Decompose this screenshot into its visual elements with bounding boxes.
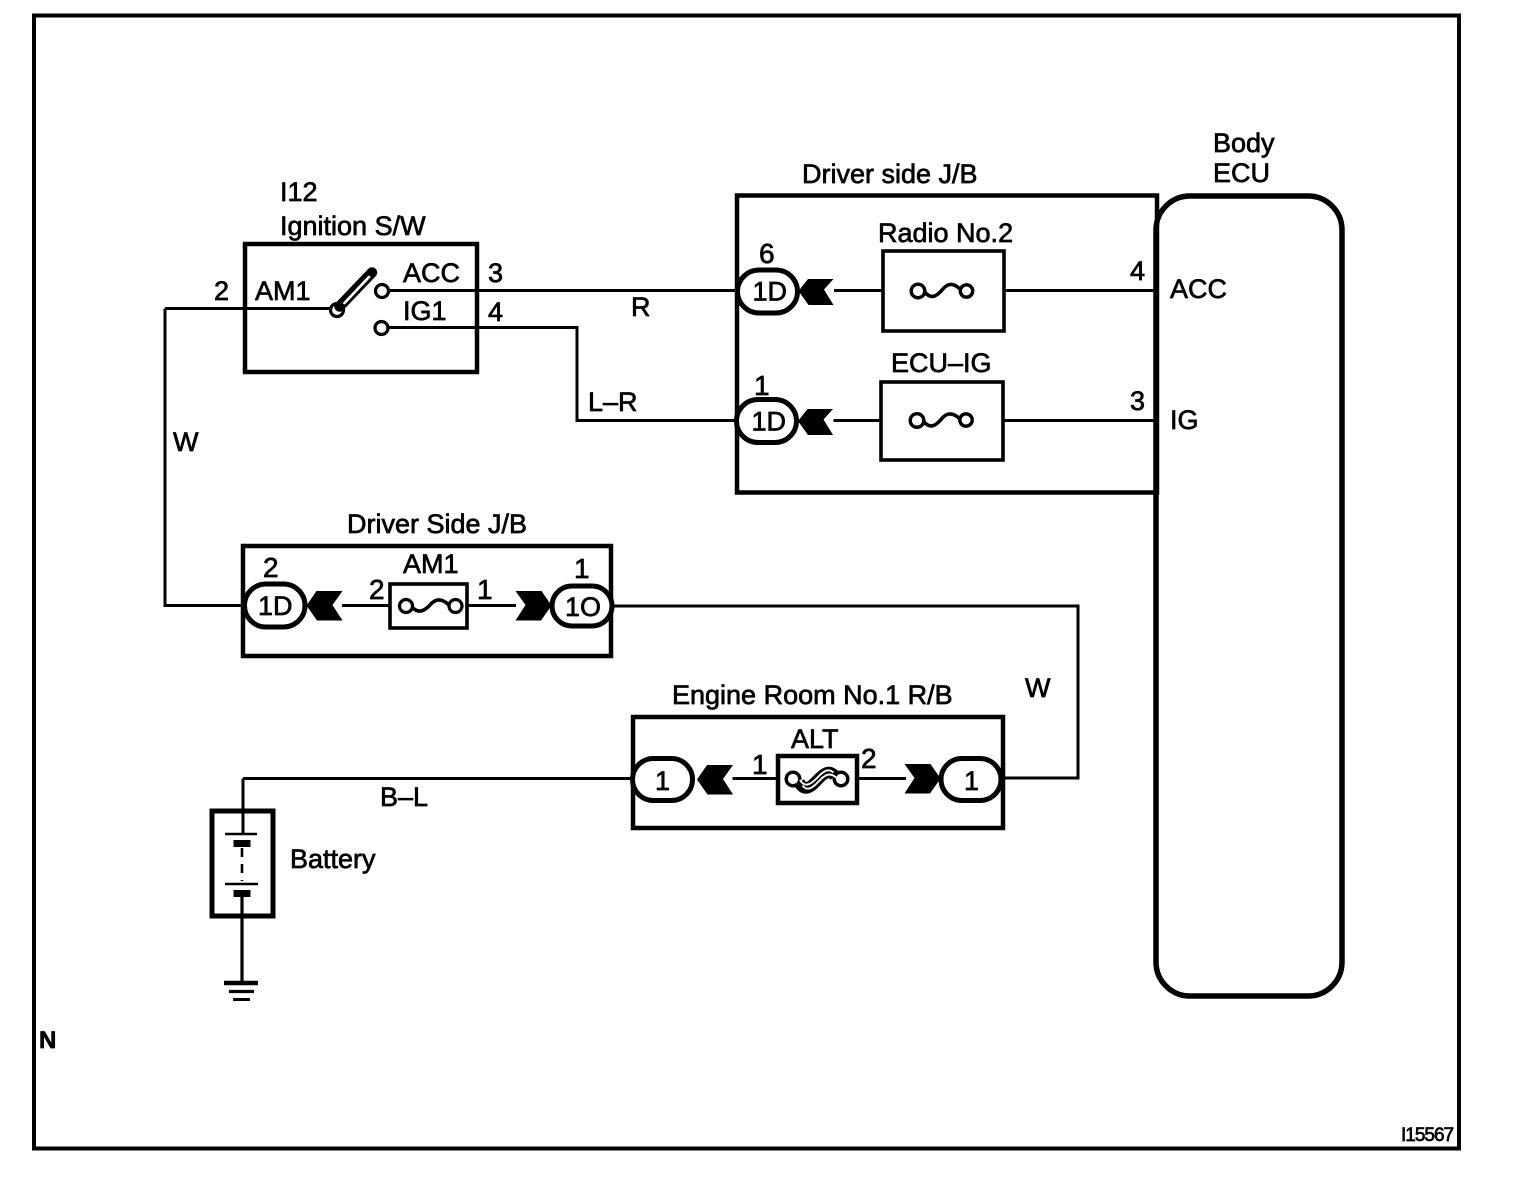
svg-text:4: 4 (488, 297, 503, 327)
svg-text:R: R (631, 292, 651, 322)
fuse ALT symbol (786, 772, 800, 786)
wire battery to ground (240, 896, 243, 983)
svg-text:1D: 1D (753, 277, 788, 307)
wire fuse to 1O (467, 604, 516, 607)
ignition switch I12 box (245, 244, 477, 372)
Engine Room No.1 R/B box (633, 717, 1003, 828)
svg-text:Driver Side J/B: Driver Side J/B (347, 509, 527, 539)
svg-text:2: 2 (263, 552, 279, 583)
fuse AM1 symbol (400, 600, 413, 613)
fuse ECU-IG symbol (910, 414, 924, 428)
fuse ALT box (778, 756, 857, 803)
wire W right: from 1O right, to x=1078, down to engine room row (612, 606, 1078, 778)
svg-text:1: 1 (754, 370, 770, 401)
ground (224, 981, 258, 986)
svg-text:3: 3 (488, 258, 503, 288)
svg-text:2: 2 (369, 574, 385, 605)
svg-text:AM1: AM1 (255, 276, 311, 306)
svg-text:W: W (1025, 673, 1051, 703)
svg-text:1O: 1O (565, 592, 601, 622)
arrow DSJB right (516, 591, 552, 621)
arrow ER left (697, 765, 733, 795)
svg-text:ACC: ACC (403, 258, 460, 288)
fuse AM1 box (390, 584, 467, 628)
svg-text:1: 1 (477, 574, 493, 605)
svg-text:1: 1 (655, 766, 670, 796)
connector 1 right (941, 759, 1001, 801)
svg-text:Body: Body (1213, 128, 1275, 158)
battery dashed link (241, 848, 244, 881)
svg-text:ECU: ECU (1213, 158, 1270, 188)
svg-text:N: N (39, 1027, 56, 1054)
svg-text:1D: 1D (258, 591, 293, 621)
arrow DSJB left (307, 591, 343, 621)
battery box (212, 811, 273, 916)
switch IG1 contact (375, 322, 388, 335)
wire DSJB oval to fuse (342, 604, 390, 607)
wire R : ACC to driver side J/B (389, 289, 737, 292)
Driver side J/B box (737, 196, 1157, 493)
arrow row2 (798, 409, 833, 435)
svg-text:1D: 1D (752, 407, 787, 437)
wire row1 oval to fuse (834, 289, 883, 292)
svg-text:ALT: ALT (791, 724, 839, 754)
connector 1O (552, 586, 612, 626)
svg-text:Radio No.2: Radio No.2 (878, 218, 1013, 248)
svg-text:1: 1 (752, 749, 768, 780)
battery cell 1 plate short thick (234, 840, 251, 847)
battery cell 2 plate long (225, 883, 258, 886)
arrow row1 (799, 279, 834, 305)
wire W : left vertical from AM1 down to Driver Side J/B (165, 309, 246, 606)
wire AM1 into switch (165, 307, 331, 310)
wire row2 fuse to ECU (1003, 419, 1155, 422)
connector 1 left (633, 759, 693, 801)
wire row1 fuse to ECU (1004, 289, 1155, 292)
svg-text:2: 2 (214, 276, 229, 306)
svg-text:IG1: IG1 (403, 296, 447, 326)
svg-text:AM1: AM1 (403, 549, 459, 579)
fuse ECU-IG box (881, 382, 1003, 460)
Driver Side J/B box (243, 546, 611, 656)
fuse Radio No.2 symbol (911, 284, 925, 298)
connector 1D row2 (737, 400, 797, 443)
svg-text:I12: I12 (280, 177, 318, 207)
svg-text:ACC: ACC (1170, 274, 1227, 304)
svg-text:W: W (173, 427, 199, 457)
switch ACC contact (376, 285, 389, 298)
switch lever (340, 273, 373, 307)
connector 1D row1 (738, 270, 798, 313)
svg-text:6: 6 (759, 238, 775, 269)
wire fuse to right oval (857, 777, 906, 780)
svg-text:Engine Room No.1 R/B: Engine Room No.1 R/B (672, 680, 953, 710)
switch common contact (331, 304, 344, 317)
svg-text:IG: IG (1170, 405, 1199, 435)
svg-text:1: 1 (574, 553, 590, 584)
battery cell 2 plate short thick (234, 890, 251, 897)
svg-text:Ignition S/W: Ignition S/W (280, 211, 426, 241)
wire battery top (242, 779, 245, 835)
wire row2 oval to fuse (834, 419, 882, 422)
svg-text:Battery: Battery (290, 844, 376, 874)
svg-text:Driver side J/B: Driver side J/B (802, 159, 978, 189)
fuse Radio No.2 box (883, 251, 1004, 331)
wire L-R : IG1 down and to J/B row 2 (388, 328, 737, 421)
svg-text:ECU–IG: ECU–IG (891, 348, 992, 378)
svg-text:1: 1 (964, 766, 979, 796)
Body ECU block (1156, 196, 1342, 996)
svg-text:2: 2 (861, 743, 877, 774)
svg-text:3: 3 (1130, 386, 1145, 416)
connector 1D DSJB (245, 584, 306, 627)
wire ER oval to fuse (733, 777, 779, 780)
wire B-L : battery to engine room (243, 777, 633, 780)
svg-text:L–R: L–R (588, 387, 638, 417)
svg-text:B–L: B–L (380, 782, 428, 812)
battery cell 1 plate long (225, 833, 257, 836)
arrow ER right (905, 764, 941, 794)
svg-text:4: 4 (1130, 256, 1145, 286)
svg-text:I15567: I15567 (1401, 1125, 1454, 1146)
